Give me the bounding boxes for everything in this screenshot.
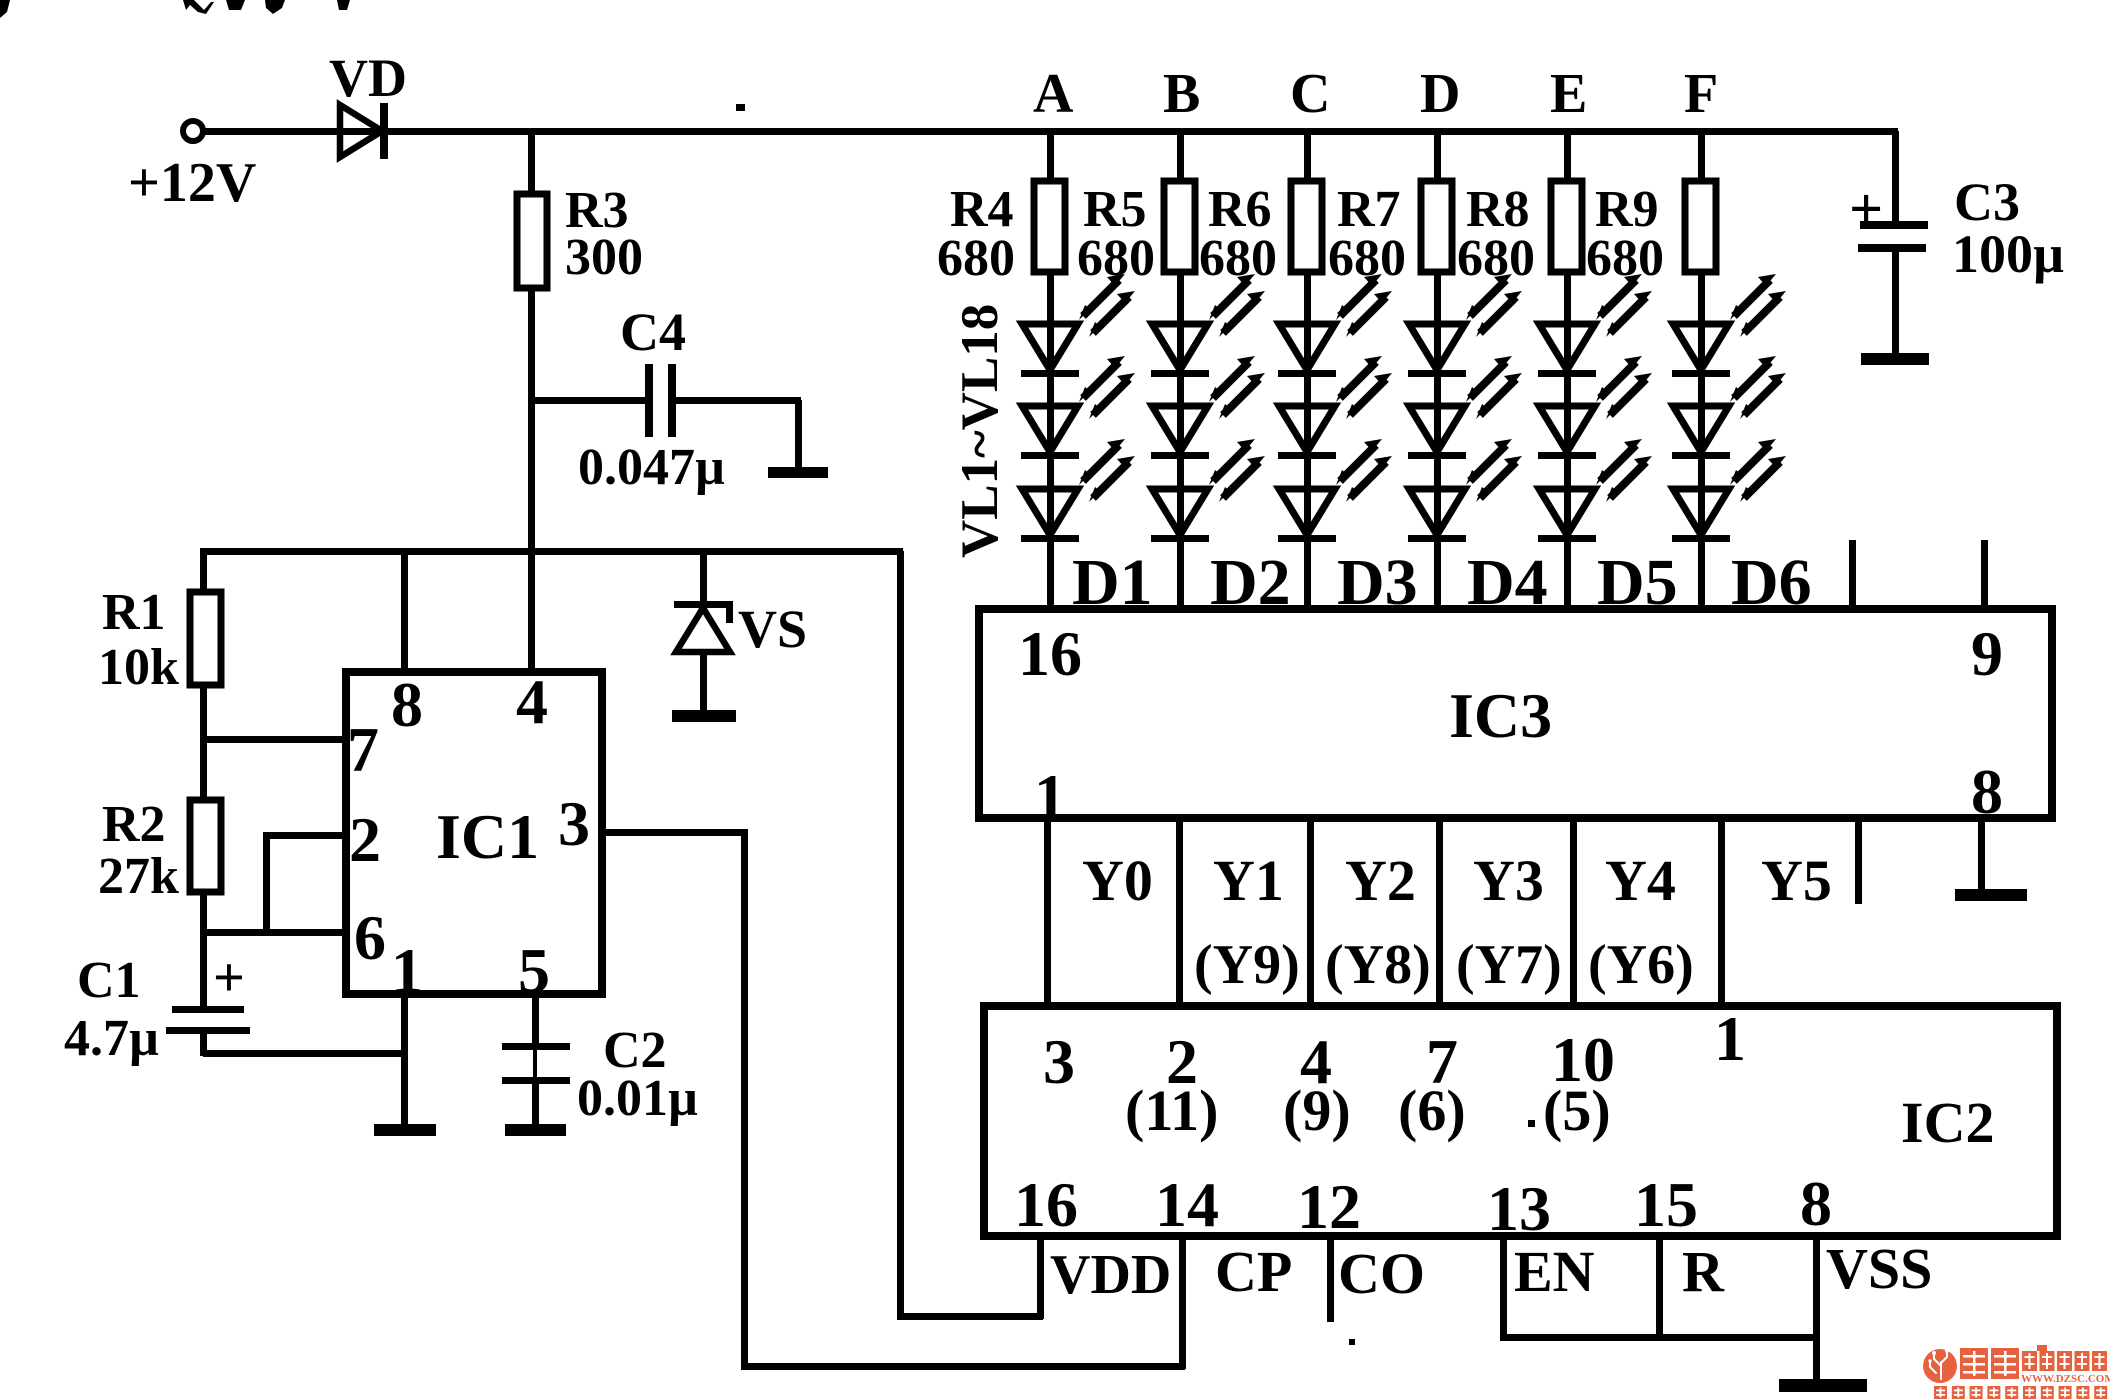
cut-off print fragment — [183, 0, 214, 14]
wire — [676, 397, 801, 404]
svg-text:4: 4 — [516, 666, 548, 737]
svg-text:C3: C3 — [1954, 172, 2020, 232]
svg-text:+: + — [213, 947, 245, 1009]
LED VL2 — [1021, 406, 1079, 459]
wire — [700, 551, 707, 610]
wire — [1047, 272, 1054, 605]
wire pin 5 — [532, 994, 539, 1046]
wire — [200, 685, 207, 800]
LED VL1 — [1021, 324, 1079, 377]
wire — [1304, 134, 1311, 181]
svg-text:0.047µ: 0.047µ — [578, 439, 725, 496]
svg-text:7: 7 — [347, 714, 379, 785]
LED VL11 light arrows — [1466, 356, 1522, 419]
LED VL3 — [1021, 489, 1079, 542]
wire pin 1 — [401, 994, 408, 1126]
svg-text:Y2: Y2 — [1345, 848, 1416, 913]
wire IC3 output Y2 — [1307, 818, 1314, 1006]
svg-text:9: 9 — [1971, 618, 2003, 689]
LED VL2 light arrows — [1079, 356, 1135, 419]
LED VL18 — [1672, 489, 1730, 542]
wire — [795, 400, 802, 468]
wire IC2 pin15 R — [1656, 1236, 1663, 1340]
wire IC1 pin3 to IC2 CP — [602, 829, 747, 836]
wire pin 6 — [203, 929, 347, 936]
wire — [200, 1034, 207, 1056]
IC3 box — [979, 609, 2052, 818]
svg-text:C1: C1 — [77, 952, 141, 1009]
svg-text:(9): (9) — [1283, 1078, 1351, 1143]
svg-text:C4: C4 — [620, 302, 686, 362]
wire IC2 pin13 EN — [1500, 1236, 1507, 1340]
LED VL6 light arrows — [1209, 439, 1265, 502]
wire IC3 output Y5 — [1718, 818, 1725, 1006]
svg-text:R2: R2 — [102, 796, 166, 853]
wire — [532, 1084, 539, 1126]
wire pin 2 — [266, 832, 347, 839]
ground — [1955, 889, 2027, 901]
LED VL12 — [1408, 489, 1466, 542]
wire IC2 pin12 CO stub — [1327, 1236, 1334, 1322]
wire EN-R-VSS — [1500, 1334, 1819, 1341]
ground — [768, 467, 828, 478]
svg-text:(Y6): (Y6) — [1588, 934, 1694, 996]
wire IC3 pin8 to ground — [1978, 818, 1985, 892]
wire to IC2 VDD — [897, 551, 904, 1319]
svg-text:R: R — [1682, 1239, 1725, 1304]
zener diode VS — [674, 601, 733, 652]
LED VL5 — [1151, 406, 1209, 459]
wire IC3 output Y1 — [1176, 818, 1183, 1006]
svg-text:F: F — [1684, 63, 1718, 125]
LED VL14 light arrows — [1596, 356, 1652, 419]
svg-text:(Y9): (Y9) — [1194, 934, 1300, 996]
wire pin 7 — [203, 736, 347, 743]
svg-text:(11): (11) — [1125, 1078, 1218, 1143]
wire — [1892, 131, 1899, 222]
svg-text:680: 680 — [1077, 230, 1155, 287]
IC2 box — [984, 1006, 2057, 1236]
svg-text:8: 8 — [1800, 1168, 1832, 1239]
svg-text:6: 6 — [354, 902, 386, 973]
LED VL13 — [1538, 324, 1596, 377]
svg-text:(6): (6) — [1398, 1078, 1466, 1143]
LED VL10 — [1408, 324, 1466, 377]
svg-text:14: 14 — [1155, 1169, 1219, 1240]
wire — [700, 652, 707, 712]
svg-text:(5): (5) — [1543, 1078, 1611, 1143]
resistor R8 — [1551, 181, 1582, 272]
wire — [1434, 272, 1441, 605]
resistor R9 — [1685, 181, 1716, 272]
wire — [203, 1050, 407, 1057]
LED VL9 light arrows — [1336, 439, 1392, 502]
svg-text:E: E — [1550, 63, 1587, 125]
LED VL1 light arrows — [1079, 274, 1135, 337]
svg-text:D: D — [1420, 63, 1460, 125]
wire stub — [1855, 818, 1862, 904]
wire — [1698, 134, 1705, 181]
svg-text:27k: 27k — [98, 848, 179, 905]
LED VL10 light arrows — [1466, 274, 1522, 337]
svg-text:CP: CP — [1215, 1239, 1292, 1304]
svg-text:IC3: IC3 — [1449, 680, 1552, 751]
wire pin 8 — [401, 551, 408, 672]
LED VL4 — [1151, 324, 1209, 377]
LED VL3 light arrows — [1079, 439, 1135, 502]
diode VD — [340, 103, 388, 159]
svg-text:Y4: Y4 — [1605, 848, 1676, 913]
svg-text:B: B — [1163, 63, 1200, 125]
ground — [1861, 353, 1929, 365]
svg-text:1: 1 — [1714, 1003, 1746, 1074]
resistor R3 — [517, 194, 547, 288]
resistor R1 — [190, 592, 221, 685]
svg-text:VL1~VL18: VL1~VL18 — [951, 304, 1009, 558]
ground — [505, 1124, 566, 1136]
svg-text:8: 8 — [391, 669, 423, 740]
LED VL16 — [1672, 324, 1730, 377]
wire — [1564, 272, 1571, 605]
wire — [531, 397, 648, 404]
wire — [1177, 272, 1184, 605]
LED VL14 — [1538, 406, 1596, 459]
resistor R2 — [190, 800, 221, 892]
wire — [1177, 134, 1184, 181]
LED VL5 light arrows — [1209, 356, 1265, 419]
LED VL18 light arrows — [1730, 439, 1786, 502]
wire — [528, 288, 535, 672]
svg-text:Y5: Y5 — [1761, 848, 1832, 913]
svg-text:VS: VS — [738, 599, 807, 659]
svg-text:100µ: 100µ — [1952, 224, 2064, 284]
wire IC3 output Y0 — [1044, 818, 1051, 1006]
svg-text:10k: 10k — [98, 639, 179, 696]
capacitor C3 — [1858, 221, 1928, 252]
cut-off print fragment — [337, 0, 350, 10]
svg-text:IC1: IC1 — [436, 801, 539, 872]
capacitor C4 — [645, 364, 676, 437]
watermark 维库 text block — [1960, 1348, 2019, 1379]
watermark 电子市场网 text block — [2022, 1351, 2107, 1371]
LED VL17 — [1672, 406, 1730, 459]
LED VL8 light arrows — [1336, 356, 1392, 419]
svg-text:R1: R1 — [102, 584, 166, 641]
LED VL12 light arrows — [1466, 439, 1522, 502]
svg-text:8: 8 — [1971, 756, 2003, 827]
watermark logo circle — [1923, 1349, 1957, 1387]
svg-text:VD: VD — [329, 48, 407, 108]
LED VL17 light arrows — [1730, 356, 1786, 419]
wire — [1892, 252, 1899, 355]
LED VL15 — [1538, 489, 1596, 542]
wire stub — [1849, 540, 1856, 609]
LED VL8 — [1278, 406, 1336, 459]
svg-text:300: 300 — [565, 229, 643, 286]
svg-text:Y0: Y0 — [1082, 848, 1153, 913]
cut-off print fragment — [0, 0, 10, 18]
svg-text:680: 680 — [1586, 230, 1664, 287]
svg-text:16: 16 — [1014, 1169, 1078, 1240]
svg-text:680: 680 — [1328, 230, 1406, 287]
wire stub — [1981, 540, 1988, 609]
svg-text:Y1: Y1 — [1213, 848, 1284, 913]
ground — [672, 710, 736, 722]
ground — [1779, 1379, 1867, 1392]
svg-text:CO: CO — [1338, 1241, 1425, 1306]
svg-text:3: 3 — [1043, 1026, 1075, 1097]
resistor R7 — [1421, 181, 1452, 272]
wire — [1698, 272, 1705, 605]
wire IC3 output Y3 — [1436, 818, 1443, 1006]
svg-text:+12V: +12V — [128, 152, 256, 214]
junction dot on rail — [736, 104, 745, 111]
resistor R4 — [1034, 181, 1065, 272]
LED VL13 light arrows — [1596, 274, 1652, 337]
wire — [528, 134, 535, 194]
svg-text:WWW.DZSC.COM: WWW.DZSC.COM — [2021, 1373, 2110, 1385]
svg-text:VDD: VDD — [1050, 1244, 1171, 1306]
wire VCC rail of IC1 — [200, 548, 903, 555]
svg-text:(Y8): (Y8) — [1325, 934, 1431, 996]
cut-off print fragment — [265, 0, 285, 14]
svg-text:16: 16 — [1018, 618, 1082, 689]
LED VL4 light arrows — [1209, 274, 1265, 337]
svg-text:4.7µ: 4.7µ — [64, 1010, 159, 1067]
LED VL7 — [1278, 324, 1336, 377]
op-amp/timer IC1 — [346, 672, 602, 994]
capacitor C1 — [166, 1006, 250, 1034]
wire IC3 output Y4 — [1570, 818, 1577, 1006]
wire IC2 pin8 VSS — [1813, 1236, 1820, 1381]
svg-text:680: 680 — [1199, 230, 1277, 287]
svg-text:12: 12 — [1297, 1171, 1361, 1242]
LED VL7 light arrows — [1336, 274, 1392, 337]
svg-text:13: 13 — [1487, 1173, 1551, 1244]
wire — [1047, 134, 1054, 181]
watermark tagline — [1934, 1386, 2107, 1399]
resistor R6 — [1291, 181, 1322, 272]
watermark TM — [2037, 1345, 2047, 1351]
wire — [1434, 134, 1441, 181]
svg-text:A: A — [1033, 63, 1074, 125]
node +12V input terminal — [183, 121, 203, 141]
wire — [1304, 272, 1311, 605]
svg-text:IC2: IC2 — [1901, 1090, 1994, 1155]
cut-off print fragment — [226, 0, 245, 10]
junction speck — [1528, 1120, 1535, 1127]
wire — [263, 832, 270, 935]
LED VL6 — [1151, 489, 1209, 542]
svg-text:2: 2 — [349, 804, 381, 875]
svg-text:680: 680 — [1457, 230, 1535, 287]
svg-text:3: 3 — [558, 788, 590, 859]
wire — [200, 551, 207, 592]
svg-text:680: 680 — [937, 230, 1015, 287]
LED VL16 light arrows — [1730, 274, 1786, 337]
LED VL15 light arrows — [1596, 439, 1652, 502]
svg-text:C: C — [1290, 63, 1330, 125]
wire — [200, 892, 207, 1008]
junction speck — [1349, 1339, 1355, 1345]
resistor R5 — [1164, 181, 1195, 272]
LED VL11 — [1408, 406, 1466, 459]
wire — [1564, 134, 1571, 181]
wire top rail — [203, 128, 1898, 135]
svg-text:VSS: VSS — [1826, 1236, 1932, 1301]
capacitor C2 — [502, 1043, 570, 1084]
svg-text:0.01µ: 0.01µ — [577, 1070, 698, 1127]
svg-text:Y3: Y3 — [1473, 848, 1544, 913]
svg-text:(Y7): (Y7) — [1456, 934, 1562, 996]
ground — [374, 1124, 436, 1136]
LED VL9 — [1278, 489, 1336, 542]
svg-text:+: + — [1849, 176, 1883, 242]
svg-text:EN: EN — [1514, 1239, 1595, 1304]
svg-text:15: 15 — [1634, 1169, 1698, 1240]
